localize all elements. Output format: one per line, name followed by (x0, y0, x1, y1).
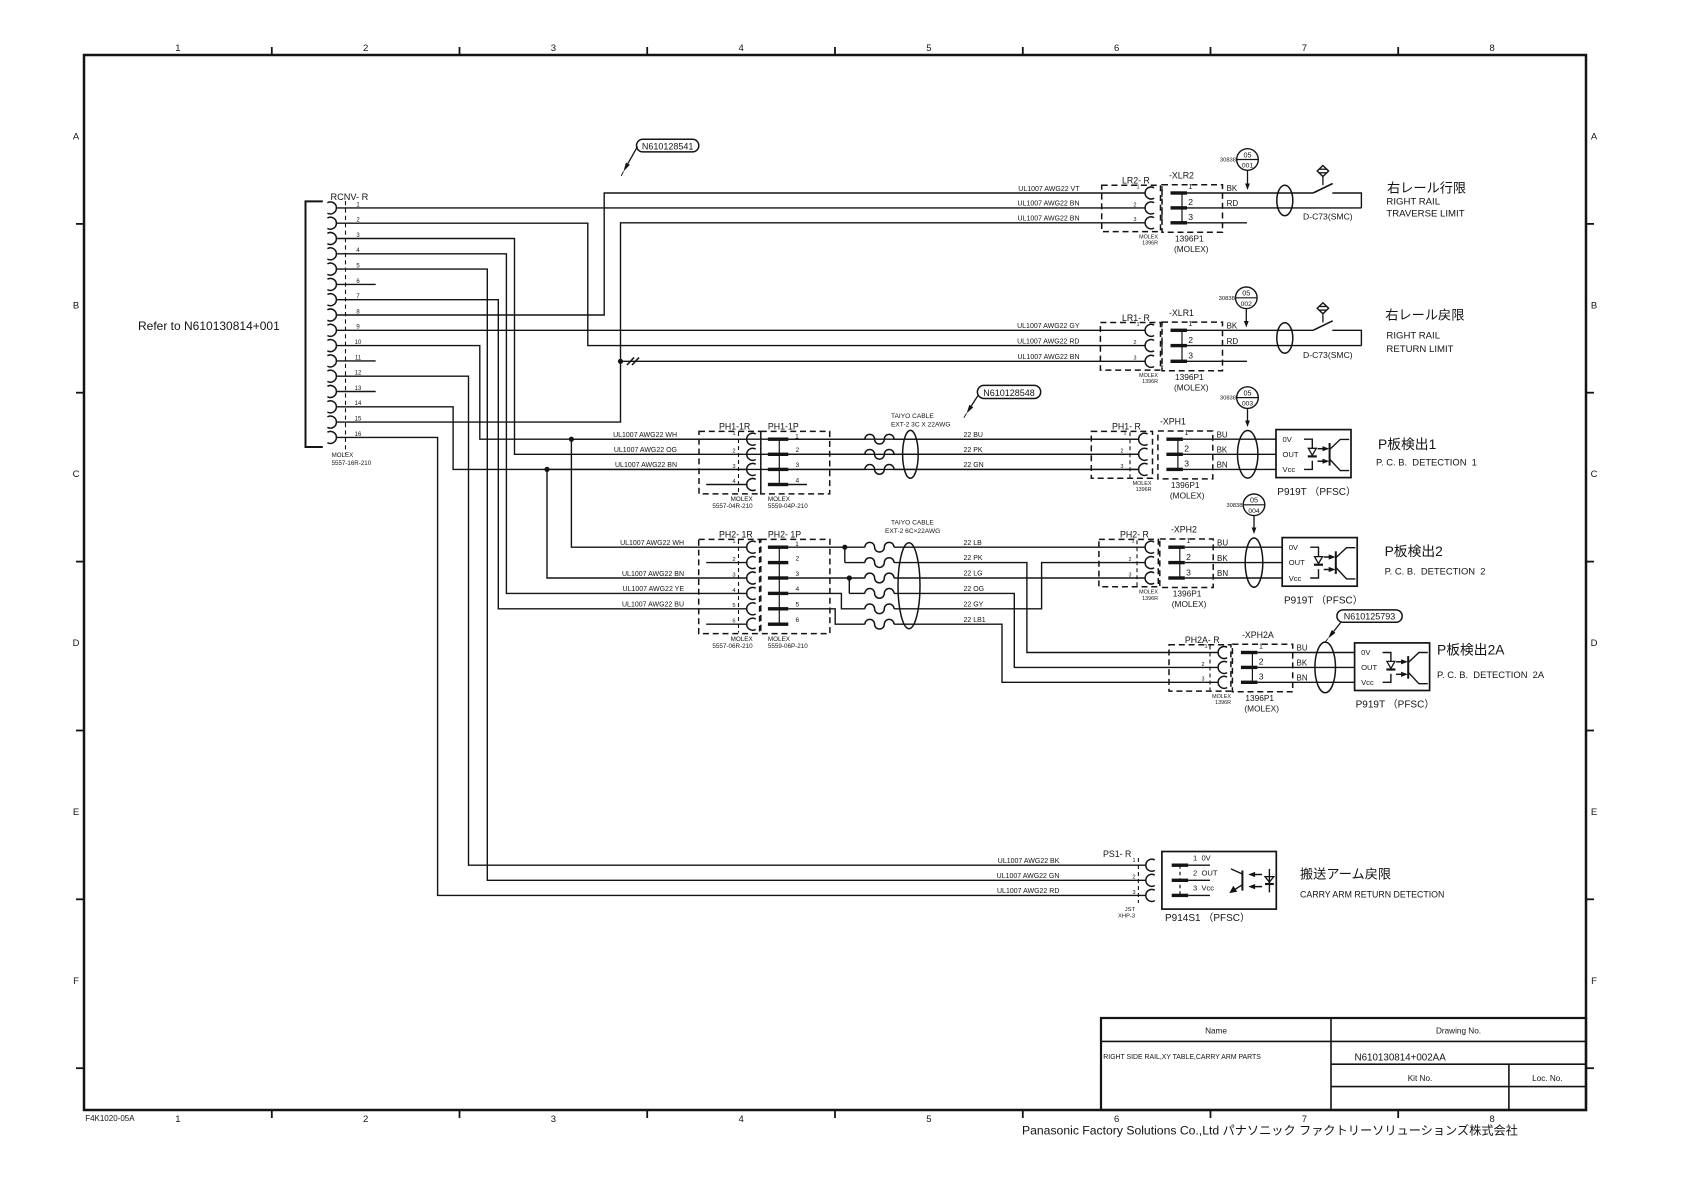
svg-text:Vcc: Vcc (1289, 574, 1302, 583)
svg-text:D: D (1591, 638, 1598, 649)
svg-text:5559-06P-210: 5559-06P-210 (768, 643, 808, 650)
svg-text:TAIYO CABLE: TAIYO CABLE (891, 413, 934, 420)
svg-text:5557-06R-210: 5557-06R-210 (712, 643, 753, 650)
svg-text:(MOLEX): (MOLEX) (1244, 703, 1279, 713)
svg-text:1: 1 (1184, 430, 1188, 437)
wire branch PH2-1R pin3 (UL1007 AWG22 BN) (547, 469, 747, 578)
photo sensor P919T #2 (PFSC) (1282, 538, 1357, 587)
twisted cable squiggles PH1 (788, 434, 1138, 474)
svg-text:Kit No.: Kit No. (1408, 1074, 1433, 1083)
svg-text:RD: RD (1227, 199, 1239, 208)
svg-text:1: 1 (1124, 431, 1127, 437)
svg-text:3: 3 (1129, 572, 1132, 578)
svg-text:N610128541: N610128541 (642, 141, 694, 151)
svg-text:Refer to N610130814+001: Refer to N610130814+001 (138, 319, 280, 333)
svg-text:003: 003 (1242, 401, 1254, 408)
svg-text:PH1-1P: PH1-1P (768, 421, 799, 431)
svg-text:22 PK: 22 PK (964, 447, 983, 454)
svg-text:3: 3 (551, 1114, 556, 1125)
svg-text:MOLEX: MOLEX (332, 452, 354, 459)
svg-text:-XPH2A: -XPH2A (1242, 630, 1274, 640)
svg-text:30838: 30838 (1220, 396, 1236, 402)
wire RCNV pin5 to PS1-R pin2 (UL1007 AWG22 GN) (337, 269, 1146, 880)
wire RCNV pin8 to LR2-R pin1 (UL1007 AWG22 VT) (337, 193, 1146, 315)
svg-text:P. C. B. DETECTION 1: P. C. B. DETECTION 1 (1376, 457, 1477, 468)
svg-text:1: 1 (1137, 185, 1140, 191)
svg-text:1: 1 (1132, 858, 1135, 864)
svg-text:Vcc: Vcc (1283, 465, 1296, 474)
cable sheath oval PH2 (898, 543, 920, 629)
connector PH2-1R (MOLEX 5557-06R-210) (699, 529, 760, 650)
svg-text:2: 2 (363, 43, 368, 54)
svg-text:22 OG: 22 OG (964, 586, 985, 593)
svg-text:EXT-2 3C X 22AWG: EXT-2 3C X 22AWG (891, 421, 951, 428)
limit switch D-C73(SMC) lower (1313, 303, 1361, 346)
svg-text:1 0V: 1 0V (1193, 853, 1212, 862)
svg-text:2: 2 (1188, 335, 1193, 345)
svg-text:UL1007 AWG22 BN: UL1007 AWG22 BN (622, 571, 684, 578)
svg-text:1: 1 (1189, 321, 1193, 328)
junction node on pin10 wire (branch to PH2-1R pin1) (569, 437, 574, 442)
title block (1101, 1018, 1586, 1110)
svg-text:1396R: 1396R (1142, 379, 1158, 385)
svg-text:6: 6 (796, 617, 800, 624)
svg-text:1: 1 (1189, 184, 1193, 191)
svg-text:UL1007 AWG22 BK: UL1007 AWG22 BK (998, 858, 1060, 865)
svg-text:UL1007 AWG22 GY: UL1007 AWG22 GY (1017, 323, 1080, 330)
inspection stamp 05/003 (1220, 387, 1258, 427)
connector PH2A-R (MOLEX 1396R) (1169, 635, 1231, 706)
twisted cable squiggles PH2 (865, 542, 894, 629)
row ticks and letters (right ruler) (1586, 131, 1598, 1068)
row boundary ticks and letters (left ruler) (73, 131, 84, 1068)
svg-text:MOLEX: MOLEX (1139, 373, 1158, 379)
svg-text:2: 2 (1188, 197, 1193, 207)
svg-text:D: D (73, 638, 80, 649)
svg-text:BK: BK (1297, 659, 1308, 668)
svg-text:3: 3 (796, 571, 800, 578)
wire stub RCNV pin11 (337, 360, 376, 362)
wire RCNV pin2 to LR1-R pin2 (UL1007 AWG22 RD) (337, 223, 1146, 345)
svg-text:0V: 0V (1289, 543, 1299, 552)
svg-text:UL1007 AWG22 YE: UL1007 AWG22 YE (623, 586, 685, 593)
svg-text:05: 05 (1250, 496, 1258, 505)
connector PS1-R (JST XHP-3) (1103, 849, 1155, 919)
wire stub RCNV pin6 (337, 283, 376, 285)
svg-text:22 GN: 22 GN (964, 462, 984, 469)
svg-text:D-C73(SMC): D-C73(SMC) (1303, 212, 1353, 222)
svg-text:05: 05 (1244, 388, 1252, 397)
svg-text:PH2- 1P: PH2- 1P (768, 529, 801, 539)
svg-text:-XPH2: -XPH2 (1171, 525, 1197, 535)
svg-text:22 LG: 22 LG (964, 571, 983, 578)
svg-text:5559-04P-210: 5559-04P-210 (768, 503, 808, 510)
wire RCNV pin14 to PH1-1R pin3 (UL1007 AWG22 BN) (337, 407, 1139, 470)
svg-text:RCNV- R: RCNV- R (331, 192, 369, 202)
svg-text:1396R: 1396R (1136, 487, 1152, 493)
svg-text:RIGHT RAIL: RIGHT RAIL (1386, 331, 1440, 342)
svg-text:2: 2 (1134, 202, 1137, 208)
svg-text:B: B (1591, 300, 1597, 311)
svg-text:2: 2 (732, 449, 735, 455)
svg-text:2: 2 (363, 1114, 368, 1125)
svg-text:1396R: 1396R (1215, 700, 1231, 706)
svg-text:Loc. No.: Loc. No. (1532, 1074, 1563, 1083)
svg-text:22 GY: 22 GY (964, 601, 984, 608)
svg-text:3: 3 (732, 572, 735, 578)
svg-text:(MOLEX): (MOLEX) (1174, 382, 1209, 392)
svg-text:PH2A- R: PH2A- R (1185, 635, 1220, 645)
svg-text:BK: BK (1217, 554, 1228, 563)
svg-text:BN: BN (1217, 569, 1228, 578)
svg-text:搬送アーム戻限: 搬送アーム戻限 (1300, 867, 1391, 882)
svg-text:004: 004 (1248, 508, 1260, 515)
svg-text:P板検出1: P板検出1 (1378, 437, 1436, 452)
cable sheath oval PH1 (903, 430, 919, 478)
svg-text:P914S1 （PFSC）: P914S1 （PFSC） (1165, 912, 1250, 924)
svg-text:2: 2 (1202, 662, 1205, 668)
svg-text:2: 2 (1129, 557, 1132, 563)
svg-text:0V: 0V (1361, 648, 1371, 657)
svg-text:右レール行限: 右レール行限 (1387, 181, 1466, 196)
svg-text:BU: BU (1297, 644, 1308, 653)
cable grommet oval LR1 (1277, 323, 1293, 353)
svg-text:JST: JST (1125, 907, 1136, 913)
svg-text:UL1007 AWG22 WH: UL1007 AWG22 WH (613, 432, 677, 439)
svg-text:N610128548: N610128548 (983, 388, 1035, 398)
svg-text:4: 4 (796, 586, 800, 593)
crossover mark // on LR1 pin3 wire (627, 358, 639, 366)
svg-text:PS1- R: PS1- R (1103, 849, 1131, 859)
wire RCNV pin4 to PH2-1R pin4 (UL1007 AWG22 YE) (337, 254, 747, 594)
cable grommet oval XPH2 (1245, 538, 1263, 587)
cable grommet oval XPH1 (1238, 431, 1258, 479)
svg-text:右レール戻限: 右レール戻限 (1385, 308, 1464, 323)
svg-text:PH2- 1R: PH2- 1R (719, 529, 753, 539)
connector PH1-R (MOLEX 1396R) (1091, 422, 1152, 494)
connector plug -XLR2 (1396P1 MOLEX) (1162, 171, 1238, 254)
svg-text:002: 002 (1241, 301, 1253, 308)
part label N610125793 (1337, 610, 1402, 622)
svg-text:E: E (73, 807, 79, 818)
wire RCNV pin1 to LR2-R pin2 (UL1007 AWG22 BN) (337, 207, 1146, 209)
svg-text:05: 05 (1242, 289, 1250, 298)
svg-text:Panasonic Factory Solutions Co: Panasonic Factory Solutions Co.,Ltd パナソニ… (1022, 1123, 1518, 1138)
wire RCNV pin7 to PH2-1R pin5 (UL1007 AWG22 BU) (337, 300, 747, 609)
leader arrow for N610125793 (1325, 622, 1342, 643)
junction node PH2-1P pin3 branch (LG/OG) (847, 575, 852, 580)
connector plug -XPH2 (1396P1 MOLEX) (1160, 525, 1229, 609)
svg-text:BU: BU (1217, 430, 1228, 439)
svg-text:30838: 30838 (1220, 158, 1236, 164)
inspection stamp 05/002 (1219, 287, 1257, 328)
svg-text:UL1007 AWG22 OG: UL1007 AWG22 OG (614, 447, 677, 454)
svg-text:1: 1 (1259, 643, 1263, 650)
svg-text:UL1007 AWG22 BN: UL1007 AWG22 BN (1018, 216, 1080, 223)
svg-text:1: 1 (175, 43, 180, 54)
svg-text:P919T （PFSC）: P919T （PFSC） (1356, 699, 1435, 711)
svg-text:3: 3 (1186, 567, 1191, 577)
svg-text:XHP-3: XHP-3 (1118, 913, 1135, 919)
wire branch LR1-R pin3 (UL1007 AWG22 BN) from junction (621, 360, 1146, 362)
svg-text:1: 1 (1132, 539, 1135, 545)
svg-text:1396R: 1396R (1142, 596, 1158, 602)
svg-text:P. C. B. DETECTION 2A: P. C. B. DETECTION 2A (1437, 669, 1545, 680)
svg-text:BK: BK (1227, 322, 1238, 331)
svg-text:3: 3 (1202, 677, 1205, 683)
svg-text:(MOLEX): (MOLEX) (1174, 244, 1209, 254)
connector plug -XPH2A (1396P1 MOLEX) (1232, 630, 1307, 713)
svg-text:P. C. B. DETECTION 2: P. C. B. DETECTION 2 (1385, 566, 1486, 577)
svg-text:F4K1020-05A: F4K1020-05A (85, 1114, 135, 1123)
connector PH1-1R (MOLEX 5557-04R-210) (699, 421, 761, 510)
wire PH1 row3 continuation to PH1-1R pin3 (547, 468, 747, 470)
svg-text:MOLEX: MOLEX (1139, 234, 1158, 240)
svg-text:2: 2 (1132, 875, 1135, 881)
wire stub XLR2 pin3 (1187, 222, 1247, 224)
svg-text:UL1007 AWG22 RD: UL1007 AWG22 RD (1017, 338, 1079, 345)
svg-text:BU: BU (1217, 538, 1228, 547)
svg-text:5: 5 (732, 603, 735, 609)
svg-text:3: 3 (1121, 464, 1124, 470)
column boundary ticks and numbers (top ruler) (175, 43, 1495, 55)
wire XLR2 pin1 (BK) to limit switch (1187, 192, 1313, 194)
svg-text:1: 1 (732, 539, 735, 545)
connector plug -XLR1 (1396P1 MOLEX) (1162, 308, 1238, 393)
svg-text:3: 3 (796, 462, 800, 469)
wires XPH1 to P919T #1 (1183, 438, 1276, 440)
svg-text:OUT: OUT (1289, 558, 1305, 567)
limit switch D-C73(SMC) upper (1313, 166, 1361, 208)
svg-text:2 OUT: 2 OUT (1193, 869, 1218, 878)
svg-text:UL1007 AWG22 BU: UL1007 AWG22 BU (622, 602, 684, 609)
svg-text:22 BU: 22 BU (964, 432, 983, 439)
svg-text:E: E (1591, 807, 1597, 818)
junction node on RCNV pin15 wire at LR1 pin3 (618, 359, 623, 364)
svg-text:C: C (73, 469, 80, 480)
junction node PH2-1P pin1 branch (LB/PK) (842, 545, 847, 550)
wires XPH2A to P919T #3 (1257, 652, 1354, 654)
svg-text:(MOLEX): (MOLEX) (1172, 599, 1207, 609)
wire XLR1 pin2 (RD) to switch fixed contact (1187, 345, 1361, 347)
svg-text:F: F (73, 976, 79, 987)
svg-text:22 LB: 22 LB (964, 540, 983, 547)
svg-text:4: 4 (738, 43, 743, 54)
svg-text:1: 1 (1186, 538, 1190, 545)
svg-text:5: 5 (926, 43, 931, 54)
svg-text:-XPH1: -XPH1 (1160, 417, 1186, 427)
svg-text:BK: BK (1217, 446, 1228, 455)
svg-text:UL1007 AWG22 WH: UL1007 AWG22 WH (620, 540, 684, 547)
wire RCNV pin16 to PS1-R pin3 (UL1007 AWG22 RD) (337, 437, 1146, 895)
svg-text:Name: Name (1205, 1027, 1227, 1036)
svg-text:TRAVERSE LIMIT: TRAVERSE LIMIT (1386, 209, 1464, 220)
svg-text:6: 6 (1114, 43, 1119, 54)
svg-text:3: 3 (1184, 459, 1189, 469)
cable grommet oval LR2 (1277, 185, 1293, 215)
svg-text:Drawing No.: Drawing No. (1436, 1027, 1481, 1036)
svg-text:30838: 30838 (1226, 503, 1242, 509)
svg-text:3: 3 (1132, 890, 1135, 896)
svg-text:22 LB1: 22 LB1 (964, 617, 986, 624)
svg-text:Vcc: Vcc (1361, 678, 1374, 687)
cable wires PH2 to PH2-R / PH2A-R (894, 547, 1218, 682)
svg-text:BN: BN (1217, 461, 1228, 470)
svg-text:N610125793: N610125793 (1344, 612, 1396, 622)
junction node on pin14 wire (branch to PH2-1R pin3) (544, 467, 549, 472)
svg-text:3: 3 (1188, 212, 1193, 222)
svg-text:P板検出2A: P板検出2A (1437, 643, 1505, 658)
svg-text:TAIYO CABLE: TAIYO CABLE (891, 520, 934, 527)
svg-text:MOLEX: MOLEX (768, 496, 791, 503)
svg-text:MOLEX: MOLEX (1139, 590, 1158, 596)
leader arrow for N610128541 (621, 147, 637, 176)
svg-text:05: 05 (1244, 150, 1252, 159)
svg-text:F: F (1591, 976, 1597, 987)
svg-text:BK: BK (1227, 184, 1238, 193)
svg-text:(MOLEX): (MOLEX) (1170, 490, 1205, 500)
wire RCNV pin15 to LR2-R pin3 (UL1007 AWG22 BN) (337, 223, 1146, 422)
svg-text:MOLEX: MOLEX (1133, 481, 1152, 487)
svg-text:2: 2 (1259, 657, 1264, 667)
svg-text:EXT-2 6C×22AWG: EXT-2 6C×22AWG (885, 528, 940, 535)
connector PH2-1P (MOLEX 5559-06P-210) (761, 529, 830, 650)
svg-text:A: A (73, 131, 80, 142)
wire RCNV pin10 to PH1-1R pin1 (UL1007 AWG22 WH) (337, 346, 1139, 440)
svg-text:5557-16R-210: 5557-16R-210 (332, 460, 372, 467)
drawing frame border (84, 55, 1586, 1110)
svg-text:22 PK: 22 PK (964, 555, 983, 562)
svg-text:1396R: 1396R (1142, 241, 1158, 247)
column ticks and numbers (bottom ruler) (175, 1110, 1495, 1125)
svg-text:P919T （PFSC）: P919T （PFSC） (1277, 486, 1356, 498)
connector PH1-1P (MOLEX 5559-04P-210) (761, 421, 830, 510)
connector plug -XPH1 (1396P1 MOLEX) (1158, 417, 1228, 501)
svg-text:3: 3 (1259, 672, 1264, 682)
svg-text:001: 001 (1242, 163, 1254, 170)
part label N610128541 (637, 139, 699, 152)
svg-text:3: 3 (1134, 217, 1137, 223)
svg-text:2: 2 (796, 555, 800, 562)
wire RCNV pin3 to PH1-1R pin2 (UL1007 AWG22 OG) (337, 239, 1139, 455)
svg-text:-XLR1: -XLR1 (1169, 308, 1194, 318)
svg-text:5: 5 (926, 1114, 931, 1125)
svg-text:3 Vcc: 3 Vcc (1193, 884, 1214, 893)
leader arrow for N610128548 (964, 396, 978, 418)
svg-text:3: 3 (1134, 356, 1137, 362)
svg-text:4: 4 (738, 1114, 743, 1125)
svg-text:7: 7 (1302, 43, 1307, 54)
wires XPH2 to P919T #2 (1185, 546, 1282, 548)
svg-text:RIGHT RAIL: RIGHT RAIL (1386, 197, 1440, 208)
wire stub XLR1 pin3 (1187, 360, 1247, 362)
svg-text:MOLEX: MOLEX (768, 636, 791, 643)
svg-text:BN: BN (1297, 674, 1308, 683)
svg-text:8: 8 (1489, 43, 1494, 54)
svg-text:P919T （PFSC）: P919T （PFSC） (1284, 595, 1363, 607)
svg-text:RIGHT SIDE RAIL,XY TABLE,CARRY: RIGHT SIDE RAIL,XY TABLE,CARRY ARM PARTS (1103, 1054, 1261, 1061)
wire RCNV pin9 to LR1-R pin1 (UL1007 AWG22 GY) (337, 329, 1146, 331)
svg-text:UL1007 AWG22 RD: UL1007 AWG22 RD (997, 888, 1059, 895)
connector LR1-R (MOLEX 1396R) (1100, 313, 1162, 385)
svg-text:UL1007 AWG22 BN: UL1007 AWG22 BN (615, 462, 677, 469)
photo sensor P919T #3 (PFSC) (1355, 643, 1430, 691)
svg-text:30838: 30838 (1219, 296, 1235, 302)
inspection stamp 05/001 (1220, 149, 1258, 190)
svg-text:MOLEX: MOLEX (1212, 694, 1231, 700)
connector RCNV-R (MOLEX 5557-16R-210) (306, 192, 372, 467)
svg-text:D-C73(SMC): D-C73(SMC) (1303, 350, 1353, 360)
svg-text:1: 1 (732, 431, 735, 437)
wire RCNV pin12 to PS1-R pin1 (UL1007 AWG22 BK) (337, 376, 1146, 865)
svg-text:P板検出2: P板検出2 (1385, 544, 1443, 559)
part label N610128548 (977, 385, 1040, 398)
connector LR2-R (MOLEX 1396R) (1102, 176, 1162, 247)
svg-text:A: A (1591, 131, 1598, 142)
svg-text:OUT: OUT (1283, 450, 1299, 459)
svg-text:RETURN LIMIT: RETURN LIMIT (1386, 344, 1453, 355)
svg-text:1396P1: 1396P1 (1171, 480, 1200, 490)
svg-text:2: 2 (1186, 552, 1191, 562)
svg-text:1396P1: 1396P1 (1175, 372, 1204, 382)
svg-text:2: 2 (1134, 340, 1137, 346)
svg-text:UL1007 AWG22 BN: UL1007 AWG22 BN (1018, 201, 1080, 208)
svg-text:OUT: OUT (1361, 663, 1377, 672)
svg-text:3: 3 (551, 43, 556, 54)
wire branch PH2-1R pin1 (UL1007 AWG22 WH) (571, 439, 746, 547)
svg-text:UL1007 AWG22 BN: UL1007 AWG22 BN (1018, 354, 1080, 361)
svg-text:MOLEX: MOLEX (731, 496, 754, 503)
svg-text:4: 4 (796, 477, 800, 484)
connector PH2-R (MOLEX 1396R) (1099, 530, 1159, 602)
svg-text:UL1007 AWG22 GN: UL1007 AWG22 GN (997, 873, 1060, 880)
svg-text:0V: 0V (1283, 435, 1293, 444)
svg-text:1396P1: 1396P1 (1175, 233, 1204, 243)
PH2-1P output wiring with branches (788, 547, 865, 624)
svg-text:RD: RD (1227, 337, 1239, 346)
inspection stamp 05/004 (1226, 494, 1264, 534)
svg-text:1396P1: 1396P1 (1173, 589, 1202, 599)
svg-text:PH1-1R: PH1-1R (719, 421, 750, 431)
svg-text:3: 3 (1188, 351, 1193, 361)
svg-text:1396P1: 1396P1 (1245, 693, 1274, 703)
svg-text:1: 1 (1205, 644, 1208, 650)
wire XLR1 pin1 (BK) to limit switch (1187, 329, 1313, 331)
wire XLR2 pin2 (RD) to switch fixed contact (1187, 207, 1361, 209)
svg-text:MOLEX: MOLEX (731, 636, 754, 643)
svg-text:N610130814+002AA: N610130814+002AA (1355, 1053, 1447, 1064)
svg-text:UL1007 AWG22 VT: UL1007 AWG22 VT (1018, 186, 1080, 193)
svg-text:1: 1 (175, 1114, 180, 1125)
svg-text:5: 5 (796, 602, 800, 609)
svg-text:C: C (1591, 469, 1598, 480)
svg-text:5557-04R-210: 5557-04R-210 (712, 503, 753, 510)
svg-text:2: 2 (1184, 444, 1189, 454)
cable grommet oval XPH2A (1315, 642, 1336, 693)
svg-text:2: 2 (1121, 449, 1124, 455)
wire stub RCNV pin13 (337, 391, 376, 393)
photo sensor P919T #1 (PFSC) (1276, 430, 1351, 478)
svg-text:B: B (73, 300, 79, 311)
wire PH1 row1 continuation to PH1-1R pin1 (571, 438, 746, 440)
svg-text:CARRY ARM RETURN DETECTION: CARRY ARM RETURN DETECTION (1300, 890, 1444, 900)
photo sensor P914S1 (PFSC) (1162, 852, 1276, 910)
svg-text:3: 3 (732, 464, 735, 470)
svg-text:2: 2 (796, 447, 800, 454)
svg-text:1: 1 (1137, 322, 1140, 328)
svg-text:-XLR2: -XLR2 (1169, 171, 1194, 181)
